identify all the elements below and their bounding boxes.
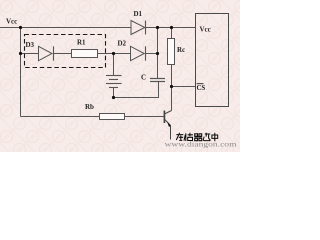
resistor Rb: [100, 114, 125, 120]
char 选: [203, 133, 211, 141]
transistor Q1: [164, 111, 171, 140]
resistor Rc: [168, 39, 175, 65]
char 存: [176, 133, 183, 141]
svg-text:Rc: Rc: [177, 46, 185, 54]
svg-text:Vcc: Vcc: [200, 26, 211, 34]
char 中: [212, 133, 218, 141]
wire Rc bottom to collector: [171, 65, 173, 111]
wire battery node to C bottom: [114, 82, 159, 98]
dashed selection box: [25, 35, 106, 68]
svg-text:C: C: [141, 74, 146, 82]
node battery top: [112, 52, 115, 55]
diode D1: [131, 21, 146, 35]
wire vertical D1 node down to capacitor C: [157, 28, 159, 79]
battery B1: [106, 76, 122, 88]
IC memory box U1: [196, 14, 229, 107]
node D3 anode: [19, 52, 22, 55]
node battery bottom: [112, 96, 115, 99]
wire left vertical branch: [20, 28, 22, 117]
diode D3: [39, 46, 54, 60]
wire D3 cathode to R1: [54, 53, 72, 55]
char 器: [195, 134, 203, 141]
svg-text:D3: D3: [26, 41, 35, 49]
wire node to CS pin: [172, 86, 196, 88]
wire R1 to D2 anode: [98, 53, 131, 55]
label CS-bar pin: [197, 84, 206, 92]
wire top rail right segment: [146, 27, 196, 29]
wire D2 cathode to node: [146, 53, 158, 55]
wire Vcc top rail left segment: [0, 27, 131, 29]
wire vertical top rail to Rc: [171, 28, 173, 39]
wire battery bottom to node: [113, 88, 115, 98]
resistor R1: [72, 50, 98, 58]
char 储: [184, 133, 193, 141]
svg-text:www.diangon.com: www.diangon.com: [165, 139, 237, 148]
svg-text:Vcc: Vcc: [6, 18, 17, 26]
node D2 cathode: [156, 52, 159, 55]
annotation 存储器选中 drawn as strokes: [176, 133, 217, 141]
svg-text:D2: D2: [118, 40, 127, 48]
node top-left: [19, 26, 22, 29]
node D1 cathode: [156, 26, 159, 29]
wire mid rail D3 anode: [21, 53, 39, 55]
svg-text:D1: D1: [134, 10, 143, 18]
node CS branch: [170, 85, 173, 88]
svg-text:R1: R1: [77, 39, 86, 47]
wire bottom rail to Rb: [21, 116, 100, 118]
capacitor C: [150, 79, 165, 82]
wire Rb to base: [125, 116, 165, 118]
diode D2: [131, 46, 146, 60]
svg-text:Rb: Rb: [85, 103, 94, 111]
node Rc top: [170, 26, 173, 29]
junction dots: [19, 26, 173, 99]
wire battery top: [113, 54, 115, 76]
svg-text:CS: CS: [197, 85, 206, 92]
